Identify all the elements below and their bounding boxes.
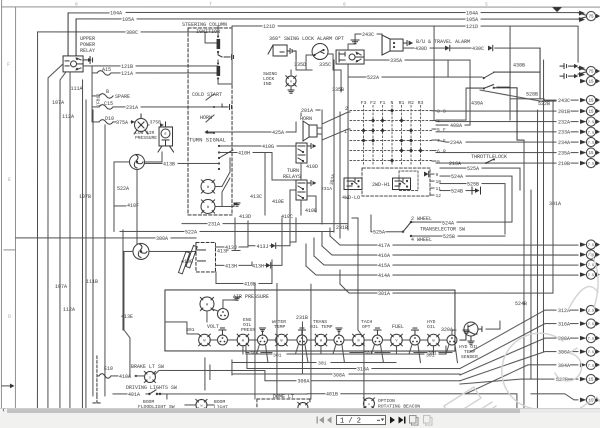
svg-text:231A: 231A [321, 186, 332, 192]
snapshot icon 2 [423, 416, 432, 426]
svg-text:301: 301 [318, 361, 327, 367]
svg-text:10: 10 [436, 179, 442, 185]
svg-text:W: W [207, 186, 210, 190]
svg-text:7: 7 [209, 1, 212, 7]
label BOOM FLOODLIGHT SW [138, 399, 175, 410]
svg-text:401B: 401B [326, 392, 338, 398]
svg-text:522A: 522A [117, 186, 129, 192]
svg-text:IND: IND [263, 81, 272, 87]
wire 410G [219, 145, 296, 147]
svg-text:6: 6 [343, 2, 346, 8]
svg-text:375A: 375A [116, 120, 128, 126]
wire 301 low bus [246, 353, 446, 355]
svg-text:413C: 413C [250, 194, 262, 200]
wire diag 304A [466, 365, 556, 394]
speaker horn [303, 121, 317, 141]
switch boom floodlight [93, 396, 101, 403]
svg-text:TURN SIGNAL: TURN SIGNAL [189, 136, 226, 143]
label HYD OIL [427, 319, 436, 330]
svg-text:15: 15 [589, 100, 595, 104]
fuse circle 75 top [578, 11, 597, 20]
first page button [316, 417, 324, 424]
wire left drops below cluster [210, 346, 446, 380]
svg-text:2 WHEEL: 2 WHEEL [411, 216, 432, 222]
svg-text:410C: 410C [281, 214, 293, 220]
label 383A [329, 173, 337, 185]
flasher symbol [178, 245, 205, 273]
fuse circle 15 522B [586, 374, 597, 383]
grid marks [361, 108, 422, 162]
fuse circle 15 201B [586, 106, 597, 115]
svg-text:105A: 105A [466, 17, 478, 23]
svg-text:301: 301 [426, 353, 435, 359]
next page button [390, 417, 395, 424]
svg-text:301A: 301A [549, 201, 561, 207]
svg-text:STEERING COLUMN: STEERING COLUMN [182, 22, 227, 28]
wire turn lamp gnd [233, 204, 235, 207]
svg-text:231A: 231A [126, 105, 138, 111]
wire 308A [303, 373, 460, 375]
svg-text:THROTTLELOCK: THROTTLELOCK [471, 154, 507, 160]
connector stubs at 75 circle [560, 64, 574, 79]
label OPTION ROTATING BEACON [378, 398, 420, 410]
label BOOM LIGHT [214, 399, 228, 411]
wire 430A drop [436, 88, 466, 120]
wire swing ind leads [290, 70, 292, 90]
wire 524B vertical [531, 190, 554, 379]
wire 415A [314, 256, 578, 265]
svg-text:R1: R1 [399, 100, 405, 106]
wire 121A fuse A15 [92, 66, 97, 73]
switch transelector [403, 222, 415, 232]
indicator LOW AIR PRESSURE [134, 114, 148, 134]
wire 312A link [470, 310, 556, 352]
svg-text:231A: 231A [208, 222, 220, 228]
label HYD OIL TEMP SENDER [459, 344, 479, 360]
sender hyd oil temp [464, 322, 478, 341]
svg-text:N: N [357, 339, 359, 343]
wire 525A pinrow [440, 168, 520, 190]
svg-text:COLD START: COLD START [192, 92, 222, 98]
wire 525A transel [371, 215, 403, 232]
svg-text:316A: 316A [558, 322, 570, 328]
svg-text:OPTION: OPTION [378, 398, 395, 404]
svg-text:410A: 410A [119, 374, 131, 380]
label FB1 [97, 93, 102, 106]
wire E10 dashed [96, 356, 98, 396]
label TRANS OIL TEMP [310, 319, 333, 330]
wire 335B vertical [341, 64, 348, 230]
svg-text:105A: 105A [122, 17, 134, 23]
wire 528B link [448, 60, 544, 100]
svg-text:104A: 104A [466, 11, 478, 17]
svg-text:HORN: HORN [300, 116, 312, 122]
wire 417A [330, 236, 578, 245]
wire 231A vertical [322, 60, 340, 238]
svg-text:416A: 416A [378, 253, 390, 259]
wire 434A [436, 140, 449, 142]
pdf toolbar [0, 413, 600, 428]
svg-text:W: W [280, 339, 283, 343]
wire diag 308A [460, 338, 556, 375]
wire 408A [436, 60, 470, 125]
label grid header [361, 100, 424, 106]
svg-text:234A: 234A [558, 140, 570, 146]
svg-text:BOOM: BOOM [214, 399, 225, 405]
svg-text:235A: 235A [558, 151, 570, 157]
svg-text:417A: 417A [378, 243, 390, 249]
wire 380C [38, 31, 218, 33]
wire 413H row [215, 262, 252, 265]
svg-text:8: 8 [437, 159, 440, 165]
wire turn relay drops [290, 163, 316, 215]
label 104A [110, 10, 478, 16]
svg-text:522A: 522A [367, 75, 379, 81]
label 312A right [570, 309, 578, 311]
wire 105A [76, 18, 578, 20]
capacitor tops [219, 328, 419, 335]
svg-text:430A: 430A [471, 101, 483, 107]
svg-text:413J: 413J [256, 244, 268, 250]
fuse circle 7.5 233A [586, 127, 597, 136]
svg-text:7.5: 7.5 [588, 365, 594, 369]
wire 210A [436, 162, 556, 164]
wire 401B [307, 394, 517, 409]
wire 335C leads [306, 54, 341, 70]
fuse circle 75 [578, 66, 597, 75]
wire 401A [113, 393, 307, 395]
wire 306A [155, 370, 460, 380]
wire 410B row [216, 260, 272, 284]
svg-text:301: 301 [186, 327, 195, 333]
svg-text:525A: 525A [373, 230, 385, 236]
wire turn lamp leads [215, 158, 234, 207]
svg-text:201B: 201B [558, 109, 570, 115]
svg-text:524A: 524A [442, 220, 454, 226]
prev page button [327, 417, 332, 424]
svg-text:7.5: 7.5 [588, 131, 594, 135]
svg-text:301A: 301A [378, 291, 390, 297]
lamp swing lock ind [286, 76, 296, 86]
relay turn 1 [296, 143, 311, 163]
svg-text:N: N [391, 100, 394, 106]
svg-text:413D: 413D [239, 214, 251, 220]
svg-text:4: 4 [437, 119, 440, 125]
wire 232A feeder [436, 121, 578, 123]
wire diag 306A [460, 352, 556, 381]
svg-text:F3: F3 [361, 100, 367, 106]
svg-text:413G: 413G [181, 259, 193, 265]
svg-text:SPARE: SPARE [115, 94, 130, 100]
svg-text:8: 8 [75, 1, 78, 7]
svg-text:W: W [203, 339, 206, 343]
svg-text:W: W [207, 206, 210, 210]
wire 243C right [544, 99, 556, 101]
svg-text:6: 6 [437, 149, 440, 155]
svg-text:316A: 316A [357, 367, 369, 373]
wire 231B bottom [363, 338, 365, 410]
wire left vertical bundle [82, 80, 105, 410]
wire diag 316A [460, 324, 556, 369]
wire 301 air [165, 311, 207, 334]
wire 416A [322, 246, 578, 255]
svg-text:121A: 121A [121, 71, 133, 77]
relay swing alarm OPT [336, 50, 364, 64]
contact turn dots [218, 145, 220, 170]
fuse C15 [99, 105, 113, 110]
wire gauge row links [210, 339, 447, 341]
svg-text:425A: 425A [272, 130, 284, 136]
wire 522B drop [460, 379, 531, 384]
svg-text:383A: 383A [329, 173, 337, 185]
svg-text:413H: 413H [225, 263, 237, 269]
fuse circle 7.5 414A [586, 270, 597, 279]
svg-text:231B: 231B [336, 225, 348, 231]
svg-text:335C: 335C [319, 62, 331, 68]
svg-text:201A: 201A [301, 108, 313, 114]
label UPPER POWER RELAY [80, 36, 95, 54]
svg-text:7.5: 7.5 [588, 142, 594, 146]
svg-text:FUEL: FUEL [392, 324, 404, 330]
svg-text:413H: 413H [252, 263, 264, 269]
label 304A right [570, 364, 578, 366]
ground OPT relay [354, 39, 356, 41]
svg-text:7.5: 7.5 [588, 163, 594, 167]
speaker BU travel alarm [382, 35, 403, 55]
label 306A right [570, 351, 578, 353]
last page button [398, 417, 403, 424]
switch cold start [206, 94, 222, 107]
svg-text:A15: A15 [102, 67, 111, 73]
svg-text:S: S [443, 109, 446, 115]
svg-text:111A: 111A [71, 86, 83, 92]
gauge air pressure [200, 297, 214, 311]
svg-text:2.5: 2.5 [588, 310, 594, 314]
svg-text:R2: R2 [408, 100, 414, 106]
svg-text:2: 2 [345, 106, 348, 112]
svg-text:W: W [320, 339, 323, 343]
svg-text:430D: 430D [415, 46, 427, 52]
dashed box 2WD-H1 [399, 171, 418, 191]
shifter contact grid [350, 106, 432, 167]
label SWING LOCK IND [263, 71, 277, 87]
snapshot icon [409, 416, 418, 426]
svg-text:410H: 410H [238, 150, 250, 156]
watermark [444, 252, 600, 428]
svg-text:524A: 524A [451, 174, 463, 180]
svg-text:234A: 234A [450, 140, 462, 146]
svg-text:DOME LT: DOME LT [273, 394, 294, 400]
svg-text:408A: 408A [450, 123, 462, 129]
wire fan lower leads [124, 251, 196, 377]
capacitor swing [287, 48, 296, 60]
fuse circle 7.5 234A [586, 137, 597, 146]
svg-text:OIL: OIL [427, 324, 436, 330]
wire 522A top [348, 76, 482, 78]
wire 375A [113, 121, 134, 123]
svg-text:525B: 525B [443, 234, 455, 240]
relay 2WD-H1 box [393, 178, 411, 190]
svg-text:410B: 410B [305, 208, 317, 214]
svg-text:112A: 112A [62, 114, 74, 120]
fuse circle 7.5 416A [586, 250, 597, 259]
wire 430B vertical [497, 26, 510, 120]
relay UPPER POWER RELAY [63, 13, 93, 72]
svg-text:306A: 306A [297, 379, 309, 385]
svg-text:BRAKE LT SW: BRAKE LT SW [131, 364, 164, 370]
relay pins right [430, 173, 434, 175]
label 316A right [570, 323, 578, 325]
wire 231A row [182, 223, 348, 225]
svg-text:524B: 524B [451, 189, 463, 195]
svg-text:522A: 522A [185, 229, 197, 235]
wire mid verticals [524, 60, 544, 409]
fuse circle 7.5 306A [586, 347, 597, 356]
svg-text:R: R [165, 132, 167, 136]
svg-text:5: 5 [437, 127, 440, 133]
svg-text:304A: 304A [558, 363, 570, 369]
dashed box flasher [196, 242, 216, 272]
svg-text:D: D [8, 314, 11, 320]
svg-text:7.5: 7.5 [588, 121, 594, 125]
wire boom light leads [185, 404, 214, 406]
wire 413J row [215, 244, 248, 247]
switch air pressure [158, 122, 174, 152]
sender air pressure [217, 308, 228, 319]
switch 430 upper [484, 48, 540, 99]
fuse circle 15 bottom [586, 395, 597, 404]
svg-text:TRANSELECTOR SW: TRANSELECTOR SW [420, 227, 465, 233]
wire 201A [301, 110, 320, 116]
wire 301A vertical [552, 101, 554, 292]
svg-text:243C: 243C [362, 32, 374, 38]
svg-text:1 / 2: 1 / 2 [340, 418, 361, 426]
wire 410H [219, 152, 296, 180]
wire 320A to sender [452, 330, 456, 335]
wire 243C [355, 34, 382, 40]
label 121D [263, 24, 478, 30]
svg-text:360° SWING LOCK ALARM OPT: 360° SWING LOCK ALARM OPT [269, 36, 344, 42]
svg-text:380A: 380A [156, 236, 168, 242]
svg-text:V: V [395, 339, 398, 343]
fan motor upper [130, 154, 145, 169]
fan motor lower [133, 243, 149, 259]
wire bottom verticals [167, 283, 311, 399]
wire 335A [364, 60, 470, 77]
svg-text:B/U & TRAVEL ALARM: B/U & TRAVEL ALARM [416, 39, 470, 45]
label 522B right [568, 378, 578, 380]
fuse circle 7.5 304A [586, 360, 597, 369]
swing motor box [268, 45, 287, 56]
svg-text:W: W [201, 404, 203, 407]
diode 430C [445, 46, 450, 51]
svg-text:12: 12 [436, 193, 442, 199]
diode pin9 [424, 172, 429, 177]
wire 201B feeder [436, 110, 578, 112]
svg-text:524B: 524B [515, 301, 527, 307]
svg-text:SENDER: SENDER [461, 354, 478, 360]
svg-text:W: W [242, 339, 245, 343]
wire 414A [306, 266, 578, 275]
zone labels [7, 1, 488, 320]
fuse E10 [99, 374, 111, 379]
wire 104A [68, 11, 578, 14]
svg-text:232A: 232A [558, 120, 570, 126]
wire hyd sender link [486, 321, 500, 329]
wire 335D [296, 60, 306, 70]
wire 522A row [120, 230, 334, 232]
wire 375B [148, 124, 164, 126]
svg-text:410F: 410F [127, 203, 139, 209]
svg-text:401A: 401A [128, 392, 140, 398]
fuse circle 7.5 210B [586, 158, 597, 167]
svg-text:R: R [290, 80, 292, 83]
wire 235A feeder [436, 152, 578, 154]
svg-text:430C: 430C [472, 46, 484, 52]
svg-text:RELAYS: RELAYS [283, 174, 301, 180]
svg-text:320A: 320A [441, 327, 453, 333]
relay 4WD-LO [344, 178, 362, 190]
wire 430C [450, 47, 540, 49]
svg-text:410B: 410B [244, 281, 256, 287]
wire 233A feeder [436, 131, 578, 133]
fuse circle 15 235A [586, 148, 597, 157]
wire 430A right link [480, 90, 556, 101]
contact ignition lower [217, 66, 221, 76]
wire turn sw lever [219, 150, 233, 158]
svg-text:375B: 375B [150, 119, 162, 125]
arrow continuation left [10, 383, 15, 388]
svg-text:335A: 335A [390, 58, 402, 64]
svg-text:525A: 525A [467, 166, 479, 172]
svg-text:OIL TEMP: OIL TEMP [310, 324, 333, 330]
svg-text:430B: 430B [513, 63, 525, 69]
grounds above senders [259, 328, 265, 331]
lamp brake lt sw [144, 371, 155, 382]
svg-text:PRESSURE: PRESSURE [135, 135, 157, 141]
wire 121D [232, 26, 578, 120]
svg-text:15: 15 [589, 111, 595, 115]
label 308A right [570, 337, 578, 339]
svg-text:HORN: HORN [200, 115, 212, 121]
fuse circle 15 [586, 76, 597, 85]
wire 525B pinrow [440, 184, 505, 235]
label TACH OPT [361, 319, 372, 330]
switch 430A lower [466, 85, 524, 141]
ground ignition [218, 52, 234, 60]
svg-text:F: F [7, 62, 10, 68]
svg-text:5: 5 [485, 2, 488, 8]
fuse circle 7.5 308A [586, 333, 597, 342]
wire 121B [83, 65, 218, 67]
wire 210B feeder [436, 162, 578, 164]
svg-text:107B: 107B [79, 194, 91, 200]
svg-text:DRIVING LIGHTS SW: DRIVING LIGHTS SW [126, 385, 177, 391]
wire bottom right feeder [531, 394, 578, 400]
svg-text:TEMP: TEMP [274, 324, 285, 330]
label WATER TEMP [272, 319, 286, 330]
wire 525B transel [411, 235, 505, 237]
wire relay drops [37, 32, 70, 410]
svg-text:15: 15 [588, 379, 594, 383]
wire 524A pinrow [440, 176, 512, 222]
svg-text:F2: F2 [370, 100, 376, 106]
relay turn 2 [296, 180, 311, 200]
svg-text:11: 11 [436, 186, 442, 192]
svg-text:7.5: 7.5 [588, 351, 594, 355]
svg-text:525B: 525B [467, 182, 479, 188]
svg-text:306A: 306A [558, 350, 570, 356]
